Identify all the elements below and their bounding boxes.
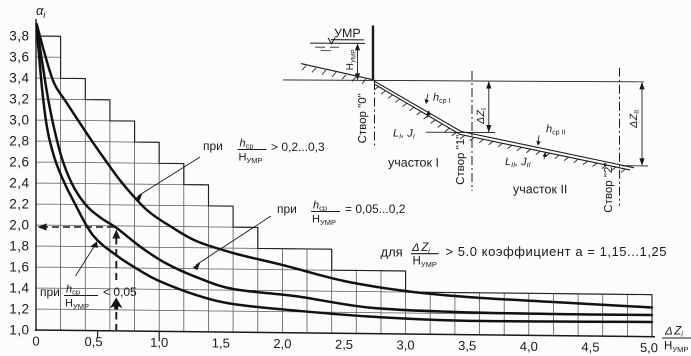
svg-text:0: 0 [32,333,39,348]
svg-text:при: при [277,202,297,216]
svg-text:3,0: 3,0 [397,337,415,352]
dashed vertical arrow at x=0.65 [115,237,117,280]
svg-text:2,5: 2,5 [335,337,353,352]
svg-text:2,0: 2,0 [9,218,29,233]
leader line L3 [76,245,96,276]
stvor 0 centerline [374,80,376,146]
dZ_II dimension [641,83,643,165]
svg-text:2,8: 2,8 [9,134,29,149]
svg-text:< 0,05: < 0,05 [103,285,137,299]
inset profile diagram [283,25,648,213]
x-axis title fraction dZ/H [662,326,691,355]
left bank slope [301,64,374,80]
H_UMR dimension [357,44,359,79]
svg-text:2,0: 2,0 [273,336,291,351]
svg-text:3,8: 3,8 [9,29,29,44]
river bed segment I (double line) [374,81,634,168]
svg-text:при: при [40,285,60,299]
leader line L1 [138,157,200,196]
svg-text:3,2: 3,2 [9,92,29,107]
extension line bottom of dZ_II [622,165,648,167]
svg-text:для: для [381,245,403,260]
svg-text:1,6: 1,6 [9,260,29,275]
svg-text:ΔZi: ΔZi [664,326,683,339]
svg-text:1,0: 1,0 [9,323,29,338]
leader line L2 [196,216,271,265]
svg-text:LI, JI: LI, JI [393,128,415,141]
reference horizontal line [283,80,644,82]
svg-text:1,5: 1,5 [212,335,230,350]
x-axis [35,330,655,337]
svg-text:ΔZI: ΔZI [475,108,488,125]
svg-text:1,2: 1,2 [9,302,29,317]
svg-text:2,4: 2,4 [9,176,29,191]
svg-text:> 5.0 коэффициент а = 1,15...1: > 5.0 коэффициент а = 1,15...1,25 [446,244,668,259]
svg-text:3,0: 3,0 [9,113,29,128]
curve 1 (h/H > 0.2...0.3) [37,24,652,307]
bold up arrowhead on dashed line [110,298,122,310]
bed hatching II [460,135,625,172]
curve 2 (h/H = 0.05...0.2) [37,25,652,315]
svg-text:2,6: 2,6 [9,155,29,170]
svg-text:3,4: 3,4 [9,71,29,86]
x tick 0.5 [97,331,99,338]
bed hatching I [374,87,457,136]
svg-text:4,0: 4,0 [520,339,538,354]
stvor 1 centerline [471,71,473,191]
water texture dashes [315,47,339,51]
dZ_I dimension [488,82,490,132]
svg-text:Створ "0": Створ "0" [357,93,369,143]
svg-text:участок I: участок I [388,156,439,170]
svg-text:при: при [203,139,223,153]
svg-text:1,8: 1,8 [9,239,29,254]
dashed horizontal arrow to y-axis at alpha=2.0 [44,226,114,228]
svg-text:Створ "1": Створ "1" [455,135,467,185]
svg-text:Створ "2": Створ "2" [603,163,615,213]
svg-text:5,0: 5,0 [640,340,658,355]
curve 3 (h/H < 0.05) [37,26,652,323]
svg-text:0,5: 0,5 [85,334,103,349]
staircase outline [36,36,652,337]
water surface line [310,42,365,44]
svg-text:1,0: 1,0 [150,335,168,350]
svg-text:> 0,2...0,3: > 0,2...0,3 [271,140,325,154]
svg-text:3,5: 3,5 [458,338,476,353]
svg-text:ΔZi: ΔZi [411,242,430,255]
retaining wall [372,25,374,80]
svg-text:2,2: 2,2 [9,197,29,212]
svg-text:4,5: 4,5 [581,339,599,354]
svg-text:участок II: участок II [513,182,567,196]
svg-text:УМР: УМР [334,26,361,40]
svg-text:1,4: 1,4 [9,281,29,296]
water level symbol [328,38,335,44]
leader/extension line at stvor 1 bed level [426,131,495,133]
svg-text:= 0,05...0,2: = 0,05...0,2 [345,202,406,216]
svg-text:3,6: 3,6 [9,50,29,65]
x tick 1.0 [158,331,160,341]
stvor 2 centerline [619,68,621,206]
y-axis [35,19,37,331]
